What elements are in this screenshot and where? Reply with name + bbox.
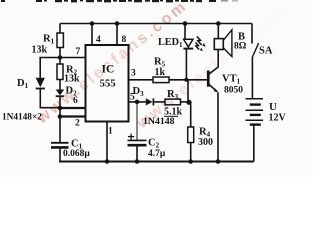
node emitter-gnd [216, 159, 221, 164]
svg-text:0.068μ: 0.068μ [63, 149, 90, 159]
svg-text:555: 555 [100, 78, 116, 90]
diode D2 [56, 90, 64, 97]
svg-text:1k: 1k [155, 67, 166, 78]
svg-text:1N4148×2: 1N4148×2 [2, 113, 42, 123]
node rail-pin8 junction [115, 21, 120, 26]
battery U 12V [246, 99, 264, 162]
watermark band B [133, 2, 291, 133]
wire D3 to R3 [153, 101, 165, 103]
wire D1 to pin6 line [40, 89, 60, 108]
paper background [0, 0, 313, 177]
resistor R4 [188, 102, 194, 161]
wire pin 8 [116, 24, 118, 46]
svg-text:13k: 13k [32, 45, 48, 56]
svg-text:6: 6 [73, 96, 78, 106]
svg-text:1: 1 [108, 127, 113, 137]
wire bottom ground rail [59, 160, 254, 162]
svg-text:SA: SA [259, 46, 273, 57]
wire pin 4 [91, 24, 93, 46]
capacitor C1 [51, 143, 69, 162]
wire top +V rail [60, 23, 252, 25]
wire pin 2 [60, 115, 86, 117]
svg-text:U: U [269, 101, 277, 113]
wire R1 to node [59, 48, 61, 58]
wire pin 6 [60, 107, 86, 109]
resistor R3 [165, 99, 181, 105]
wire pin 3 [129, 79, 154, 81]
speaker B [214, 24, 232, 57]
wire R5 to base [169, 79, 207, 81]
node pin6 junction [58, 106, 63, 111]
svg-text:8Ω: 8Ω [234, 42, 247, 52]
wire pin 1 to ground [106, 122, 108, 162]
node rail-speaker junction [216, 21, 221, 26]
LED LED1 [183, 39, 193, 48]
node below R1 [58, 55, 63, 60]
node R4-gnd [188, 159, 193, 164]
diode D3 [146, 98, 154, 105]
diode D1 [36, 78, 45, 89]
wire R2 to D2 [59, 80, 61, 90]
svg-text:IC: IC [102, 64, 115, 76]
svg-text:300: 300 [198, 137, 213, 148]
svg-text:12V: 12V [269, 113, 287, 124]
resistor R1 [57, 33, 63, 48]
node base/R4 junction [186, 100, 191, 105]
capacitor C2 [128, 102, 147, 162]
svg-text:8: 8 [122, 35, 127, 45]
node rail-LED junction [183, 21, 188, 26]
node pin5 C2 tee [135, 100, 140, 105]
svg-text:2: 2 [75, 119, 80, 129]
wire LED to pin3 line [185, 49, 187, 80]
svg-text:3: 3 [131, 69, 136, 79]
svg-text:7: 7 [76, 47, 81, 57]
switch SA [252, 24, 259, 99]
node LED pin3 crossing [184, 78, 188, 82]
svg-text:4: 4 [96, 35, 101, 45]
watermark www.elecfans.com band A [33, 0, 191, 128]
svg-text:1N4148: 1N4148 [143, 116, 175, 127]
transistor collector [209, 50, 218, 74]
wire D2 down through pin6/pin2 nodes to C1 [59, 96, 61, 142]
op IC 555 box [86, 45, 129, 122]
wire R3 to node [181, 101, 190, 103]
node rail-pin4 junction [90, 21, 95, 26]
resistor R5 [153, 77, 169, 83]
C2 plus sign [128, 134, 134, 140]
svg-text:8050: 8050 [224, 86, 243, 96]
wire down to base node [187, 80, 189, 103]
wire R1 top lead [59, 24, 61, 34]
wire to D1 [40, 58, 60, 78]
node pin2 junction [58, 114, 63, 119]
LED1 column wire from rail [184, 24, 186, 40]
transistor Q1 base bar [207, 71, 210, 87]
svg-text:13k: 13k [64, 74, 80, 85]
cropped caption text row at top [1, 0, 238, 2]
transistor emitter with arrow [209, 85, 218, 162]
LED light arrows [196, 37, 206, 52]
wire pin7 [60, 57, 86, 59]
resistor R2 [57, 58, 63, 80]
svg-text:4.7μ: 4.7μ [148, 149, 166, 159]
node pin1-gnd [105, 159, 110, 164]
wire pin 5 [129, 101, 146, 103]
node C2-gnd [135, 159, 140, 164]
